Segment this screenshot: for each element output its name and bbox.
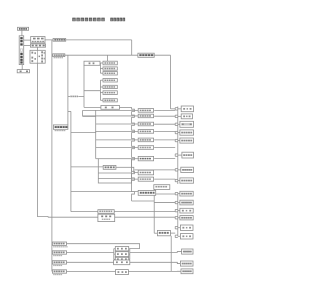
wire G-line-178 xyxy=(98,177,131,179)
text title main 学校法人学園 xyxy=(72,18,104,22)
wire bracket2 s4 xyxy=(100,79,103,81)
wire R-bus lower xyxy=(175,192,180,237)
wire S3-stub-r xyxy=(129,258,130,260)
wire trunk x171.2 xyxy=(170,236,172,272)
box dept M6 xyxy=(138,146,153,150)
wire feed M6 xyxy=(96,147,139,149)
wire riji-to-jimu1 xyxy=(24,39,31,41)
wire S4-exit R16 xyxy=(130,262,181,263)
wire bracket2 v xyxy=(99,80,101,100)
wire unei-to-right xyxy=(154,54,170,56)
box dept R5 xyxy=(180,138,194,143)
text L1-sub xyxy=(53,246,67,247)
wire feed M3 xyxy=(96,123,139,125)
wire bracket1 s1 xyxy=(100,62,103,64)
box kanji 監事 xyxy=(17,70,29,73)
wire bracket2 feed xyxy=(84,90,100,92)
wire line-211 R11 xyxy=(71,211,175,213)
box dept M8 xyxy=(138,170,153,175)
wire M9-R8 xyxy=(154,178,175,180)
box jimukyoku C8 事務局 xyxy=(101,106,120,110)
box committee C5 xyxy=(103,85,117,88)
wire school L2 xyxy=(52,251,114,253)
box richo 理事長 xyxy=(53,39,66,42)
wire K-drop x154.2 xyxy=(153,195,155,233)
box school label L2 xyxy=(52,251,66,254)
wire M5-R5 xyxy=(154,139,175,141)
wire riji-to-jimu2 xyxy=(24,45,31,47)
wire link-x82 h xyxy=(83,115,96,117)
wire trunk x95.7 xyxy=(95,110,97,158)
wire S2-stub-l xyxy=(114,253,116,255)
box dept R3 xyxy=(180,121,194,127)
box dept M1 xyxy=(138,109,153,113)
wire A-C8 feed xyxy=(84,106,101,108)
wire drop x131.7 xyxy=(131,40,133,55)
box dept R14 xyxy=(180,234,193,239)
wire G-to-M9 xyxy=(132,177,139,180)
wire kenkei link right xyxy=(78,96,84,98)
wire M4-R4 xyxy=(154,130,175,132)
box rijikai tall vertical 理事会 xyxy=(19,36,24,65)
wire trunk-left x52 xyxy=(51,40,53,272)
box jonin-rijikai 常任理事 xyxy=(31,37,45,43)
box dept R9 xyxy=(180,191,193,196)
wire G-top-left xyxy=(96,158,99,160)
wire S2-stub-r xyxy=(129,253,130,255)
wire school L3 xyxy=(52,261,114,263)
wire school L4 xyxy=(52,270,116,272)
wire trunk x70.9 xyxy=(70,111,72,211)
box dept M7 xyxy=(138,156,153,160)
wire S-bracket-R xyxy=(129,249,131,260)
box dept R11 xyxy=(180,208,193,213)
wire S-bracket-L xyxy=(113,249,115,260)
box dept M9 xyxy=(138,177,153,181)
box dept M5 xyxy=(138,138,153,142)
wire R9 feed xyxy=(156,193,176,195)
box dept R17 xyxy=(181,269,193,274)
wire M1-right xyxy=(154,109,175,111)
wire S1-stub-l xyxy=(114,248,116,250)
group box G 大学 xyxy=(98,159,131,183)
box dept M10 xyxy=(138,190,156,195)
box school label L1 xyxy=(52,242,66,245)
wire M-trunk castellated xyxy=(132,107,135,201)
wire R-bus upper xyxy=(175,107,182,185)
wire bracket2 s7 xyxy=(100,99,103,101)
wire feed M4 from hojin trunk xyxy=(71,131,138,132)
box gakucho 学長 xyxy=(84,61,100,65)
box G-label xyxy=(103,165,116,169)
wire K-right xyxy=(170,232,175,234)
wire link-x82 v xyxy=(82,110,84,116)
wire R1 trunk-feed xyxy=(171,108,176,110)
box dept R2 xyxy=(181,114,192,119)
wire strip-to-grid xyxy=(36,47,38,50)
wire trunk x67.9 xyxy=(67,55,69,125)
box school label L3 xyxy=(52,261,66,264)
box school dept S1 xyxy=(115,247,128,251)
wire A-trunk x84 xyxy=(83,65,85,107)
box school dept S4 xyxy=(114,260,130,265)
wire jimucho-line xyxy=(52,54,138,56)
box school dept S2 xyxy=(115,252,128,257)
wire trunk x170.5 xyxy=(170,55,172,109)
box dept R15 xyxy=(182,249,193,254)
wire R10 feed xyxy=(154,202,175,204)
wire bracket1 s2 xyxy=(100,68,103,70)
box jimukyokucho 事務局長 xyxy=(53,54,65,57)
wire x68-x70.9 link xyxy=(68,110,71,112)
box committee C6 xyxy=(103,91,117,95)
wire Mtrunk-bottom xyxy=(132,200,155,202)
box dept R6 xyxy=(182,152,194,158)
box committee C7 xyxy=(103,99,117,102)
box hojin-jimukyoku 法人事務局 xyxy=(53,125,68,129)
wire G-line-173 xyxy=(98,172,131,174)
wire bracket1 s3 xyxy=(100,72,103,74)
wire trunk x37.4 xyxy=(37,63,48,217)
text L3-sub xyxy=(53,265,62,266)
wire R7 feed xyxy=(134,169,175,171)
box unei-kaigi 運営会議 xyxy=(138,53,154,57)
wire S-exit R15 xyxy=(130,251,182,254)
wire S5-exit R17 xyxy=(128,270,181,272)
wire feed M10 xyxy=(71,191,138,193)
box dept R10 xyxy=(180,200,193,205)
text jimukyokucho-sub xyxy=(54,57,63,58)
wire M7-right xyxy=(154,158,175,160)
wire line-217 R12 xyxy=(48,216,175,218)
box riji-names 理事 xyxy=(30,44,45,47)
box school label L4 xyxy=(52,270,66,273)
box school dept S5 xyxy=(116,270,129,275)
box label LB2 xyxy=(98,214,115,221)
wire feed M1 xyxy=(83,109,139,111)
box committee C2 xyxy=(103,67,117,70)
box committee C1 xyxy=(103,61,117,65)
box K 幼稚園 label xyxy=(157,230,170,235)
wire bracket1 v xyxy=(99,63,101,73)
box school dept S3 xyxy=(115,257,128,261)
text title sub 組織機構図 xyxy=(110,18,125,22)
box member grid 監事名簿 xyxy=(30,50,45,63)
box dept R4 xyxy=(180,130,194,135)
box dept R13 xyxy=(180,225,193,230)
box dept R7 xyxy=(181,167,194,172)
wire feed M2 xyxy=(83,115,139,117)
wire kenkei link left xyxy=(68,96,70,98)
wire hyogiin-to-riji xyxy=(21,30,23,36)
wire K-feed xyxy=(154,232,157,234)
wire drop committees xyxy=(107,55,109,61)
box label LB1 xyxy=(98,210,114,214)
wire main-h riji-line xyxy=(45,39,132,41)
box dept R8 xyxy=(180,178,194,183)
wire S3-stub-l xyxy=(114,258,116,260)
wire M2-R2 xyxy=(154,115,175,117)
wire G-line-167 right xyxy=(116,166,132,168)
wire M3-R3 xyxy=(154,123,175,125)
wire bracket2 s6 xyxy=(100,92,103,94)
wire feed M5 xyxy=(96,139,139,141)
box dept M3 xyxy=(138,122,153,126)
wire school L1 xyxy=(52,244,140,249)
text L2-sub xyxy=(53,255,62,256)
box dept R12 xyxy=(180,216,193,220)
wire bracket2 s5 xyxy=(100,86,103,88)
wire M6-right xyxy=(154,147,175,149)
wire W-M10 link xyxy=(154,189,156,190)
box committee C3 xyxy=(103,72,117,76)
box dept R16 xyxy=(180,261,193,266)
text hojin-sub xyxy=(55,130,66,131)
wire G-top-to-M7 xyxy=(132,158,140,160)
text link-label xyxy=(70,96,78,98)
box committee C4 xyxy=(103,79,117,83)
wire C8-right xyxy=(120,106,132,108)
box dept M2 xyxy=(138,114,153,118)
wire S1-stub-r xyxy=(129,248,130,250)
wire G-to-M8 xyxy=(132,167,139,172)
wire riji-to-kanji xyxy=(21,65,23,70)
box dept M4 xyxy=(138,130,153,134)
box hyogiinkai 評議員会 xyxy=(18,27,29,30)
text L4-sub xyxy=(53,274,62,275)
box dept R1 xyxy=(181,106,193,112)
wire G-line-167 left xyxy=(71,166,103,168)
box W 附属図書館 xyxy=(154,185,170,190)
